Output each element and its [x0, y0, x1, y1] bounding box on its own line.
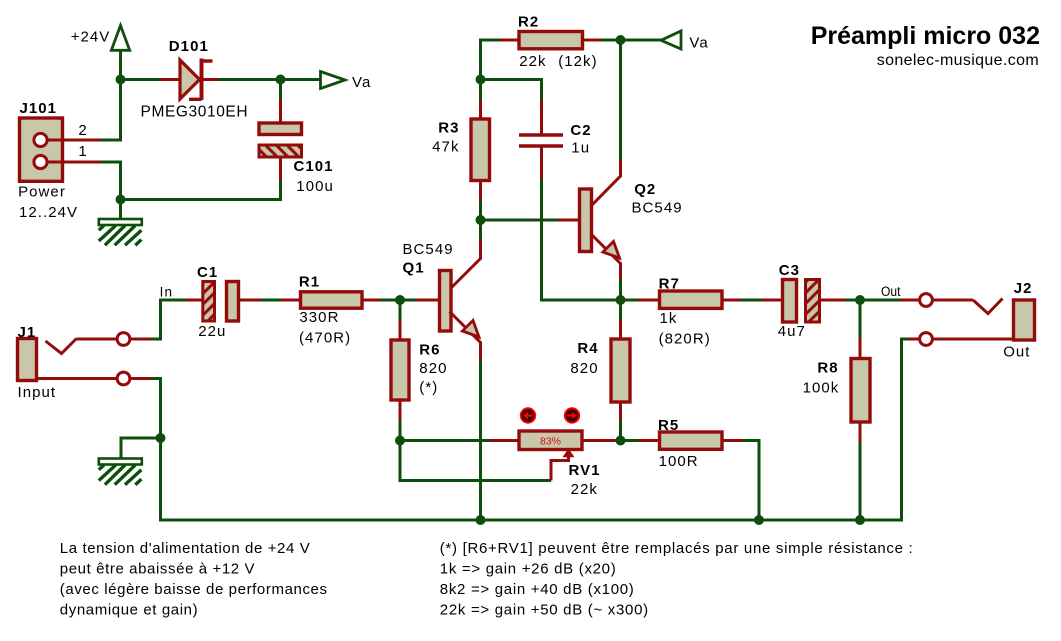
svg-text:100k: 100k [803, 380, 840, 397]
capacitor C101 [259, 123, 334, 195]
resistor R2 left lead [501, 39, 520, 42]
transistor Q2 [580, 160, 683, 282]
svg-text:C3: C3 [779, 262, 800, 279]
jack J1 tip contact [46, 333, 152, 354]
node R8/bus [855, 515, 865, 525]
wire R1 to Q1 base node [380, 299, 417, 302]
svg-text:D101: D101 [169, 38, 209, 55]
wire Out node down to R8 [859, 300, 862, 338]
wire Q2 emitter down to node [619, 280, 622, 300]
svg-text:83%: 83% [540, 436, 561, 448]
node RV1/R4/R5 [616, 436, 626, 446]
svg-text:C2: C2 [570, 122, 591, 139]
svg-text:2: 2 [78, 122, 87, 139]
resistor R3 top lead [479, 101, 482, 121]
svg-text:PMEG3010EH: PMEG3010EH [141, 104, 249, 121]
diode D101 cathode lead [203, 78, 218, 81]
svg-text:Va: Va [352, 74, 371, 91]
wire ground to J1 node [121, 438, 161, 459]
resistor R4 [570, 339, 630, 402]
node R6/RV1 [395, 436, 405, 446]
wire pin1 to ground node [101, 162, 121, 200]
wire J1 tip to C1 [151, 285, 187, 340]
jack J2 tip contact [901, 294, 1003, 314]
capacitor C101 bottom lead [279, 157, 282, 180]
node C3/R8/Out [855, 295, 865, 305]
wire pin2 to +24V net [101, 80, 121, 141]
wire R8 to bus [859, 443, 862, 521]
resistor R4 bottom lead [619, 402, 622, 421]
transistor Q1 collector lead [450, 239, 481, 290]
svg-text:BC549: BC549 [403, 241, 454, 258]
node R3/Q2 base/Q1 collector [476, 215, 486, 225]
jack J1 sleeve contact [37, 372, 152, 385]
svg-text:(12k): (12k) [558, 53, 597, 70]
jack J1 [18, 324, 57, 401]
resistor R1 [299, 274, 362, 347]
svg-text:22k: 22k [519, 53, 546, 70]
wire base node down to R6 [399, 300, 402, 321]
node Q1 base/R6 [395, 295, 405, 305]
pin 2 lead J101 [47, 122, 101, 140]
net flag Va top-right [661, 31, 709, 52]
wire D101 to node [218, 78, 281, 81]
wire R6 to RV1 node [399, 421, 402, 441]
svg-text:100u: 100u [296, 178, 334, 195]
svg-text:dynamique et gain): dynamique et gain) [60, 602, 198, 619]
jack J2 sleeve contact [909, 333, 1015, 346]
svg-text:12..24V: 12..24V [19, 204, 78, 221]
wire R4 to RV1 node [619, 421, 622, 441]
resistor R2 [518, 14, 598, 71]
wire Q1 collector net [479, 220, 482, 240]
svg-text:R5: R5 [658, 417, 679, 434]
potentiometer RV1 wiper arrow [551, 449, 575, 481]
capacitor C3 left lead [762, 299, 783, 302]
svg-text:1u: 1u [571, 140, 590, 157]
svg-text:Préampli micro 032: Préampli micro 032 [811, 22, 1040, 50]
svg-text:RV1: RV1 [569, 462, 601, 479]
capacitor C1 left lead [186, 299, 204, 302]
svg-text:Q1: Q1 [403, 260, 425, 277]
svg-text:Out: Out [1003, 344, 1030, 361]
resistor R8 top lead [859, 338, 862, 360]
resistor R5 right lead [722, 439, 743, 442]
ground symbol J1 [99, 459, 142, 485]
node Q1 emitter/bus [476, 515, 486, 525]
svg-text:R3: R3 [438, 120, 459, 137]
svg-text:peut être abaissée à +12 V: peut être abaissée à +12 V [60, 561, 255, 578]
resistor R5 left lead [639, 439, 660, 442]
potentiometer RV1 right lead [582, 439, 617, 442]
wire J1 sleeve down [151, 379, 161, 439]
svg-text:22k => gain +50 dB (~ x300): 22k => gain +50 dB (~ x300) [440, 602, 649, 619]
potentiometer RV1 [519, 431, 601, 498]
adjust icon decrement [520, 407, 536, 423]
svg-text:C101: C101 [294, 158, 334, 175]
node Q2 emitter/R7/R4/C2 [616, 295, 626, 305]
svg-text:BC549: BC549 [632, 200, 683, 217]
wire +24V down [119, 50, 122, 80]
power flag +24V [71, 26, 130, 51]
note right [440, 540, 914, 619]
wire node to R5 [621, 439, 640, 442]
svg-text:330R: 330R [299, 309, 339, 326]
node R2/R3/C2 [476, 75, 486, 85]
resistor R1 left lead [280, 299, 301, 302]
wire R5 to bus [743, 441, 760, 521]
resistor R1 right lead [362, 299, 380, 302]
svg-text:22u: 22u [198, 323, 226, 340]
wire Va node down to Q2 collector [619, 40, 622, 160]
resistor R6 [391, 340, 447, 400]
svg-text:(avec légère baisse de perform: (avec légère baisse de performances [60, 581, 328, 598]
wire node to Va flag [281, 78, 321, 81]
resistor R7 left lead [638, 299, 660, 302]
resistor R3 bottom lead [479, 181, 482, 201]
svg-text:La tension d'alimentation de +: La tension d'alimentation de +24 V [60, 540, 311, 557]
svg-text:820: 820 [570, 360, 598, 377]
potentiometer RV1 left lead [490, 439, 520, 442]
svg-text:4u7: 4u7 [778, 323, 806, 340]
diode D101 [141, 38, 249, 121]
resistor R5 [658, 417, 722, 470]
resistor R8 [803, 359, 870, 423]
svg-text:47k: 47k [432, 139, 459, 156]
svg-text:J2: J2 [1014, 280, 1033, 297]
svg-text:R7: R7 [659, 276, 680, 293]
svg-text:100R: 100R [659, 453, 699, 470]
node ground J101 [116, 195, 126, 205]
wire RV1 wiper return loop [400, 441, 551, 481]
capacitor C3 [778, 262, 820, 340]
svg-text:J1: J1 [18, 324, 37, 341]
svg-text:(*): (*) [419, 379, 438, 396]
svg-text:Out: Out [881, 284, 901, 299]
svg-text:Q2: Q2 [634, 181, 656, 198]
diode D101 anode lead [160, 78, 180, 81]
node +24V junction [116, 75, 126, 85]
jack J2 [1003, 280, 1034, 361]
svg-text:1: 1 [78, 143, 87, 160]
capacitor C1 right lead [239, 299, 262, 302]
wire Out node right [860, 284, 901, 300]
transistor Q1 base lead [417, 299, 440, 302]
wire base node to Q2 [481, 219, 559, 222]
wire C3 to Out node [845, 299, 860, 302]
resistor R4 top lead [619, 320, 622, 341]
svg-text:Power: Power [18, 184, 66, 201]
svg-text:(470R): (470R) [299, 330, 351, 347]
connector J101 [18, 100, 78, 221]
resistor R7 [659, 276, 722, 348]
wire junction to D101 [121, 78, 161, 81]
wire node to C2 [481, 80, 542, 102]
capacitor C2 top lead [540, 101, 543, 135]
capacitor C2 bottom lead [540, 147, 543, 179]
wire R3 to base node [479, 201, 482, 221]
wire R7 to C3 [741, 299, 763, 302]
title [811, 22, 1040, 69]
svg-text:(*) [R6+RV1] peuvent être remp: (*) [R6+RV1] peuvent être remplacés par … [440, 540, 914, 557]
capacitor C1 [197, 264, 239, 340]
svg-text:8k2 => gain +40 dB (x100): 8k2 => gain +40 dB (x100) [440, 581, 635, 598]
wire Q1 emitter to bus [479, 360, 482, 520]
node D101/C101/Va [276, 75, 286, 85]
resistor R2 right lead [583, 39, 603, 42]
svg-text:J101: J101 [20, 100, 58, 117]
svg-text:+24V: +24V [71, 29, 111, 46]
resistor R8 bottom lead [859, 422, 862, 443]
svg-text:22k: 22k [571, 481, 598, 498]
svg-text:sonelec-musique.com: sonelec-musique.com [877, 52, 1039, 69]
svg-text:1k => gain +26 dB (x20): 1k => gain +26 dB (x20) [440, 561, 617, 578]
svg-text:Va: Va [689, 35, 708, 52]
wire node to RV1 left [400, 439, 490, 442]
wire R2 left [481, 40, 501, 80]
wire ground node down [119, 200, 122, 220]
svg-text:Input: Input [18, 384, 57, 401]
wire node down to R4 [619, 300, 622, 320]
svg-text:R1: R1 [299, 274, 320, 291]
resistor R7 right lead [722, 299, 741, 302]
svg-text:R8: R8 [817, 360, 838, 377]
ground symbol J101 [99, 219, 142, 245]
wire emitter node to R7 [621, 299, 639, 302]
net flag Va top-left [321, 72, 372, 92]
node R2/Q2 collector [616, 35, 626, 45]
node R5/bus [754, 515, 764, 525]
svg-text:R4: R4 [577, 340, 598, 357]
resistor R3 [432, 119, 489, 181]
wire C1 to R1 [262, 299, 281, 302]
node J1 sleeve/ground/bus [156, 433, 166, 443]
capacitor C3 right lead [820, 299, 846, 302]
resistor R6 bottom lead [399, 400, 402, 421]
capacitor C101 top lead [279, 99, 282, 124]
wire ground bus [161, 339, 909, 520]
svg-text:(820R): (820R) [659, 331, 711, 348]
svg-text:R2: R2 [518, 14, 539, 31]
wire node to R3 [479, 80, 482, 102]
wire node down to C101 [279, 80, 282, 101]
svg-text:1k: 1k [660, 310, 678, 327]
svg-text:C1: C1 [197, 264, 218, 281]
svg-text:R6: R6 [419, 342, 440, 359]
adjust icon increment [564, 407, 580, 423]
svg-text:In: In [160, 285, 172, 300]
transistor Q2 base lead [558, 219, 580, 222]
resistor R6 top lead [399, 321, 402, 342]
wire C2 to Q2 emitter node [542, 179, 621, 300]
transistor Q1 [403, 241, 481, 361]
note left [60, 540, 328, 619]
svg-text:820: 820 [419, 360, 447, 377]
wire R2 to Va flag [602, 39, 662, 42]
wire C101 to ground rail [121, 180, 281, 200]
pin 1 lead J101 [47, 143, 101, 162]
capacitor C2 [519, 122, 592, 157]
